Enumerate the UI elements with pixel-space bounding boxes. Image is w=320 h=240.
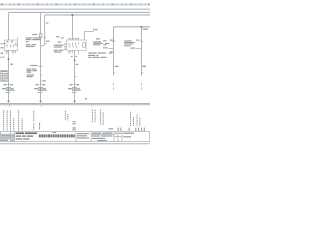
small cells text [115,133,121,134]
revision table text [1,135,14,141]
component text block between right wires [124,40,135,46]
ground symbol right-middle [73,101,76,103]
fuse label S228 [32,34,37,35]
gauge label [76,64,78,65]
labels left of right branch 1 [103,40,108,48]
merge of B drop into middle wire [41,45,45,46]
connector tick on B drop [43,37,46,39]
wire: relay 2 output down [74,50,76,101]
relay 2 pins bottom [69,50,79,54]
tick middle wire [41,74,43,76]
fuse text block [26,37,41,47]
wire: left drop from bus A [8,13,10,40]
label at L feed [94,29,97,30]
relay J17 box (left) [4,40,17,50]
dashed continuation right wire 2 [140,83,142,90]
label on bus C [143,28,148,29]
tick on B drop [45,43,47,45]
ground symbol left [7,101,10,103]
connector tick [140,40,143,42]
middle text block [27,68,37,77]
wire: L feed into relay 2 [85,28,94,40]
tick on left wire [9,92,11,94]
ground bus double line [0,103,150,105]
tick middle wire top [40,84,42,86]
ground symbol middle [39,101,42,103]
wire gauge label 2.5 [10,64,13,65]
pin number marks [7,51,14,52]
doc info text [92,133,112,142]
branch stub into right wire 2 [136,48,142,50]
label on wire B drop [46,23,49,24]
legend text rows [1,71,7,81]
plug connector [73,88,77,91]
legend box lower left [1,70,8,81]
branch stub into right wire 1 [108,48,113,50]
tick [75,92,77,94]
connector T1 labels left wire [3,84,13,85]
plug connector middle wire [39,88,43,91]
dashed continuation right wire 1 [113,83,115,90]
terminal label left of relay [0,43,5,44]
junction dot bus B [71,14,73,16]
connector T2 on middle wire [38,65,42,67]
tick [75,76,77,78]
label right of B drop [46,41,50,42]
relay 2 designation label [58,41,62,42]
relay 2 internals [69,42,85,47]
plug connector symbol left wire [6,88,10,91]
tick middle wire 2 [41,80,43,82]
stub below line middle [41,105,43,107]
fuse S228 [39,34,42,38]
wire: left branch down [8,50,10,101]
tick right wire 2 [141,72,143,74]
bus line 15 (B) [45,14,150,16]
small text bits above title block [39,121,145,133]
junction dot bus C [140,26,142,28]
label left margin 2 [1,53,4,54]
title block frame [0,132,149,142]
component label text block upper right [93,38,109,45]
bus line 30 (A) [9,11,151,13]
wire: relay 2 feed from bus B [71,15,73,40]
label left margin 3 [1,57,3,58]
bottom frame line [0,143,150,145]
current track number strip [39,134,75,137]
tick wire top [74,84,76,86]
relay J52 box [67,40,87,50]
ruler band with scale numbers [0,3,150,5]
sheet title text [123,133,134,138]
junction dot [74,60,76,62]
connector tick [112,40,115,42]
wire: right branch 1 drop [113,27,115,76]
junction dot [8,58,10,60]
tick right wire 1 [114,72,116,74]
wire: middle drop from bus A [40,13,42,102]
title text lines [16,132,38,139]
text block mid right [88,53,112,58]
relay pins bottom [6,50,15,54]
stub below line right-middle [91,105,93,107]
relay 2 description text [54,45,64,53]
label above relay 2 [56,36,59,37]
wire: drop from bus B at x44.7 [44,15,46,45]
stub below line left [9,105,11,107]
gauge label right wire 1 [115,66,119,67]
connector labels middle wire [36,84,46,85]
connector labels [70,84,80,85]
tick middle wire 3 [41,92,43,94]
relay 2 pin stubs top [69,38,79,40]
vertical track labels below ground bus [4,110,140,131]
tick left wire [8,84,10,86]
gauge label right wire 2 [142,66,146,67]
label 30 left margin [1,47,4,48]
part number box text [77,133,89,139]
relay coil symbol [15,43,17,45]
frame line top [0,8,150,10]
relay J17 internals [7,41,14,48]
wire: right branch 2 drop [140,27,142,76]
stub above relay box right [16,37,18,40]
relay 2 pin labels [64,38,78,50]
tick on right wire 1 [112,51,114,53]
bus line C (right) [114,26,151,28]
